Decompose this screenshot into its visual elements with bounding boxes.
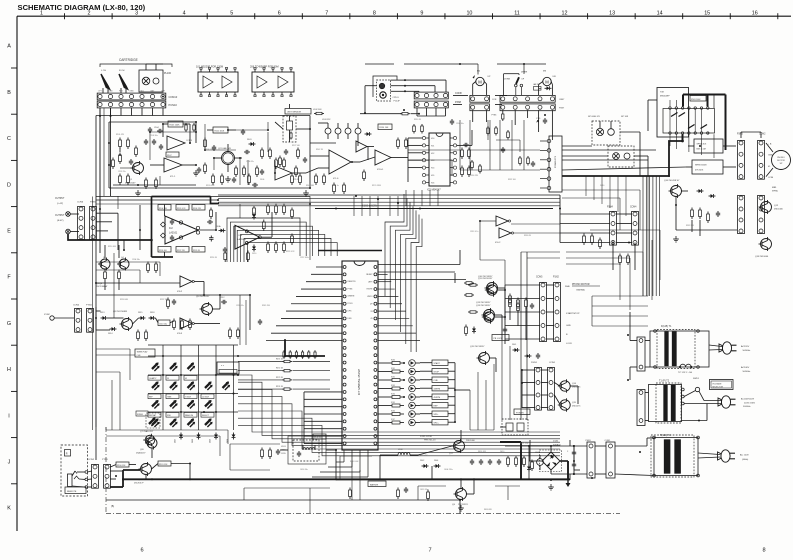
label PTN5 [492, 110, 505, 121]
svg-text:Q15 2SC1815Y: Q15 2SC1815Y [470, 346, 485, 348]
bus thick above CPU [318, 250, 382, 252]
transistor Q16 speed [664, 180, 688, 205]
svg-text:7 INCH: 7 INCH [185, 396, 192, 398]
power transformer T1 [650, 325, 709, 374]
svg-text:SIG: SIG [140, 91, 144, 93]
buffer IC8-2 [177, 276, 204, 293]
LED D114b [170, 418, 178, 427]
svg-text:C121 1u: C121 1u [332, 185, 339, 187]
svg-text:R440 5.6K: R440 5.6K [350, 461, 359, 463]
svg-text:SYNC: SYNC [44, 314, 50, 316]
svg-text:POWER: POWER [516, 412, 524, 414]
oscillator coil [297, 445, 315, 457]
resistor box C110 [158, 320, 170, 326]
svg-text:2SD1275: 2SD1275 [572, 406, 581, 408]
indicator box 7-seg [217, 362, 239, 374]
power transformer T3 [651, 434, 699, 477]
svg-text:33RPM: 33RPM [434, 389, 441, 391]
wire right mid horizontals [566, 252, 643, 310]
svg-text:DRIER: DRIER [521, 72, 528, 74]
diode D101 [247, 139, 256, 146]
svg-text:HD0: HD0 [431, 138, 434, 140]
LED D107 [188, 381, 196, 390]
connector P3N8 row2 [414, 101, 461, 108]
svg-text:1: 1 [40, 11, 43, 17]
diodes D104 D105 [252, 213, 256, 252]
connector CON1M [548, 362, 556, 410]
headphone jack [68, 471, 88, 489]
LED D111 [188, 400, 196, 409]
svg-text:G: G [7, 321, 11, 327]
transistor Q8 servo [113, 311, 133, 331]
switch SWD1 voltage select [684, 378, 704, 401]
svg-text:D118: D118 [150, 312, 154, 314]
LED D113b [152, 418, 160, 427]
svg-text:GM294A: GM294A [576, 289, 585, 292]
svg-text:R337 68K: R337 68K [686, 225, 695, 227]
svg-text:REPEAT: REPEAT [149, 414, 157, 417]
svg-text:R245 15K: R245 15K [262, 305, 271, 307]
bus nested staircase right [385, 194, 422, 352]
svg-text:C103 10u: C103 10u [150, 135, 158, 137]
svg-text:R139 1K: R139 1K [193, 250, 201, 252]
resistor boxes above IC2 [158, 205, 205, 211]
LED D112 [205, 400, 213, 409]
svg-text:220V/ /240V: 220V/ /240V [744, 402, 756, 404]
wires connector to motor [741, 132, 773, 177]
svg-text:CON6: CON6 [77, 202, 84, 204]
wires output to amp [96, 213, 124, 258]
diode D115 D118 [138, 312, 156, 320]
oscillator L101 dashed box [281, 440, 319, 461]
svg-text:HD4: HD4 [431, 168, 434, 170]
svg-text:RANDOM: RANDOM [185, 414, 193, 417]
svg-text:+ B: + B [768, 144, 772, 146]
switch name plates column [420, 360, 455, 425]
svg-text:Q16 2SC458 SY: Q16 2SC458 SY [664, 180, 680, 182]
diode D113 [100, 312, 108, 320]
svg-text:3: 3 [135, 11, 138, 17]
wire left long verticals [96, 108, 246, 427]
svg-text:C108 47u: C108 47u [246, 161, 254, 163]
connector CON2 [88, 459, 98, 488]
wires CPU right area [378, 250, 505, 372]
svg-text:STOP: STOP [434, 372, 440, 374]
svg-text:SP 103: SP 103 [621, 116, 629, 118]
inductor L102 label [313, 109, 324, 115]
misc diodes motor drive [691, 189, 721, 223]
svg-text:12 INCH: 12 INCH [202, 396, 210, 398]
LED matrix row wires [148, 345, 238, 412]
svg-text:CON8: CON8 [455, 92, 462, 95]
svg-text:45RPM: 45RPM [434, 397, 441, 399]
svg-text:50/60Hz: 50/60Hz [743, 350, 751, 352]
LED D110 [170, 400, 178, 409]
label BARKER [368, 481, 386, 487]
svg-text:UNIT SENSOR: UNIT SENSOR [287, 112, 302, 114]
buffer IC6-2 pair [495, 216, 514, 244]
svg-text:PC14F: PC14F [394, 101, 401, 103]
svg-text:R171 1K: R171 1K [276, 359, 284, 361]
capacitor texture preamp3 [129, 129, 298, 177]
svg-text:RND: RND [167, 415, 172, 417]
lamp block SP103 dashed [608, 146, 634, 167]
bus thick matrix feed [238, 340, 325, 356]
svg-text:Q18 2SD1046: Q18 2SD1046 [755, 256, 769, 258]
svg-text:R174 1K: R174 1K [276, 386, 284, 388]
svg-text:TIMES PLAY: TIMES PLAY [137, 351, 149, 354]
svg-text:T(120) T3: T(120) T3 [660, 434, 671, 437]
transistor Q14 2SD1275 [558, 379, 581, 392]
svg-text:REMOTE: REMOTE [348, 281, 357, 283]
transistor Q12 right [759, 200, 784, 214]
bus thick main ground [122, 478, 570, 480]
wires CPU right pin exits [378, 274, 420, 340]
svg-text:VOLTAGE: VOLTAGE [712, 382, 722, 385]
svg-text:Q8 2SC2308W: Q8 2SC2308W [113, 311, 127, 313]
svg-text:R186: R186 [391, 411, 395, 413]
diodes D121 D122 [465, 325, 508, 337]
wire below matrix horizontals [106, 427, 228, 456]
svg-text:IC6-2: IC6-2 [495, 242, 501, 244]
svg-text:50/60Hz: 50/60Hz [743, 406, 750, 408]
svg-text:MB1: MB1 [772, 187, 777, 189]
svg-text:SPEED: SPEED [137, 414, 144, 416]
svg-text:WHE: WHE [565, 286, 570, 288]
wire band rows D-E left [96, 196, 310, 260]
svg-text:PCN10: PCN10 [169, 103, 178, 107]
svg-text:SPD-: SPD- [434, 414, 439, 416]
svg-text:B3X 1.5M: B3X 1.5M [697, 149, 706, 151]
transistor Q15 2SD1275 [558, 398, 581, 411]
tiny value labels texture 4 [300, 443, 529, 511]
svg-text:47K B2X: 47K B2X [695, 170, 704, 172]
capacitor texture row C right [450, 119, 535, 167]
svg-text:L103 152: L103 152 [322, 119, 331, 121]
svg-text:D144: D144 [434, 460, 438, 462]
svg-text:2SD1406: 2SD1406 [774, 209, 784, 211]
svg-text:IC7 M58653-451SP: IC7 M58653-451SP [357, 369, 361, 395]
resistor pack SFRB [686, 160, 730, 174]
lamp block SP0004 dashed [592, 121, 620, 145]
svg-text:R142 1K: R142 1K [316, 149, 324, 151]
svg-text:P3N6: P3N6 [90, 202, 96, 204]
svg-text:SFRA 45X: SFRA 45X [697, 143, 707, 146]
connector CON7 row1 [500, 95, 565, 102]
svg-text:MS0049P: MS0049P [660, 95, 670, 97]
svg-text:T1 (P) T2: T1 (P) T2 [659, 380, 670, 383]
svg-text:8: 8 [373, 11, 376, 17]
wires motor power [522, 370, 578, 408]
svg-text:AC220V: AC220V [741, 345, 750, 348]
wire right mid texture [562, 190, 660, 300]
wire left inner vertical [92, 197, 94, 431]
tiny value labels texture 1 [116, 134, 382, 187]
capacitor C101 [144, 139, 156, 145]
label REMOTE [65, 487, 86, 494]
svg-text:R111 100K: R111 100K [215, 131, 225, 133]
svg-text:RESET: RESET [366, 274, 373, 276]
svg-text:33: 33 [167, 378, 169, 380]
svg-text:R119 2.2K: R119 2.2K [205, 149, 214, 151]
logic IC5 M54547 [422, 133, 456, 192]
wire phono feed verticals [521, 252, 560, 420]
resistors phono drive [468, 284, 534, 313]
svg-text:R322 100: R322 100 [508, 179, 516, 181]
svg-text:R422 1.5K: R422 1.5K [520, 443, 529, 445]
connector CON8 row1 [414, 92, 462, 99]
junction dots preamp [108, 123, 269, 159]
resistor R191 box [152, 461, 191, 469]
resistors near Q10 [464, 282, 519, 309]
capacitor bank power [470, 459, 501, 465]
unit sensor label [285, 109, 311, 115]
diode D147 [521, 445, 531, 479]
LED D101 [152, 362, 160, 371]
svg-text:Q9 2SC1815Y: Q9 2SC1815Y [196, 296, 210, 298]
svg-text:R222 4.7K: R222 4.7K [286, 251, 295, 253]
svg-text:C6N7: C6N7 [559, 99, 565, 101]
op-amp IC10-2 small [356, 141, 374, 152]
svg-text:2SA1015Y: 2SA1015Y [136, 451, 146, 454]
svg-text:R216 1K: R216 1K [210, 257, 218, 259]
wire switch matrix bus thick [681, 95, 725, 151]
svg-text:BARKER: BARKER [370, 483, 379, 486]
input SYNC [44, 314, 74, 320]
svg-text:U/D: U/D [553, 76, 557, 78]
svg-text:POS1: POS1 [348, 303, 353, 305]
svg-text:HD3: HD3 [431, 160, 434, 162]
svg-text:R127 560: R127 560 [292, 145, 300, 147]
svg-text:IC8-2: IC8-2 [177, 291, 183, 293]
wire preamp internal rails [109, 122, 310, 188]
svg-text:D210: D210 [252, 253, 256, 255]
svg-text:C412 47u: C412 47u [420, 489, 428, 491]
switch matrix contacts row2 [669, 132, 709, 134]
diode D147 group [512, 344, 540, 359]
switch unit T08 MS0049P outer box [648, 88, 689, 138]
transistor Q11 [478, 278, 497, 297]
svg-text:H: H [7, 367, 11, 373]
LED D106 [170, 381, 178, 390]
svg-text:M: M [545, 80, 549, 85]
wires CPU left lower [304, 392, 342, 443]
connector CON4L [73, 305, 81, 333]
unit sensor dashed block [283, 116, 296, 142]
svg-text:D101: D101 [247, 139, 252, 141]
motor M2 up-down [473, 71, 492, 96]
label D131-D138 PRXT01-20 [420, 436, 436, 442]
stylus coil L-CH [101, 70, 110, 93]
svg-text:2SD1275: 2SD1275 [572, 387, 581, 389]
svg-text:GND: GND [108, 91, 113, 93]
svg-text:(B): (B) [111, 505, 114, 508]
power cord and plug T3 [698, 450, 735, 462]
dual transistor Q2 [214, 144, 242, 172]
svg-text:C312 4.7u: C312 4.7u [470, 231, 478, 233]
connector PTN3 [102, 459, 110, 488]
svg-text:R136 100: R136 100 [159, 250, 167, 252]
LED D105 [152, 381, 160, 390]
wire right area horizontals [592, 176, 648, 326]
column diodes D117-D120 [175, 433, 236, 444]
svg-text:AC110V/120V/: AC110V/120V/ [741, 398, 755, 401]
svg-text:R: R [66, 452, 68, 455]
svg-text:IC1-3: IC1-3 [187, 140, 193, 142]
svg-text:2SC945 P: 2SC945 P [134, 483, 144, 485]
bus right vertical bundle [613, 176, 660, 296]
resistor R111 box [207, 127, 236, 133]
svg-text:P0N1: P0N1 [586, 440, 592, 442]
wires CP101 to CON8 [391, 79, 447, 92]
capacitor texture preamp2 [148, 123, 216, 151]
svg-text:D114: D114 [108, 333, 112, 335]
wires motor drive [562, 146, 737, 236]
label AC220V ratings [741, 345, 750, 373]
svg-text:GND: GND [129, 91, 134, 93]
transistor Q3 [96, 258, 110, 286]
junction dots extra [115, 63, 630, 480]
svg-text:7: 7 [325, 11, 328, 17]
svg-text:D410: D410 [500, 451, 504, 453]
op-amp IC10-1 [375, 150, 400, 171]
svg-text:9: 9 [420, 11, 423, 17]
svg-text:CON1: CON1 [605, 440, 612, 442]
op-amp IC1-6 [318, 150, 360, 180]
svg-text:SP 0004 X3: SP 0004 X3 [588, 116, 600, 118]
power PCB strip [540, 136, 562, 192]
svg-text:5: 5 [230, 11, 233, 17]
LED D104 speed [223, 381, 231, 390]
svg-text:SPD+: SPD+ [434, 423, 440, 425]
svg-text:R105 100K: R105 100K [170, 125, 181, 127]
resistor cluster right of IC3 [267, 204, 294, 254]
svg-text:OUTPUT: OUTPUT [55, 215, 65, 217]
svg-text:L102 103: L102 103 [313, 109, 322, 111]
svg-text:D141: D141 [512, 344, 516, 346]
connector CON9 row2 [470, 104, 490, 111]
svg-text:C141: C141 [535, 452, 539, 454]
svg-text:PTN3: PTN3 [102, 459, 108, 461]
svg-text:R183: R183 [391, 385, 395, 387]
capacitor C104 [154, 127, 163, 133]
name plates row4 [148, 413, 214, 418]
connector CON9 row1 [470, 95, 497, 102]
svg-text:B: B [7, 90, 11, 96]
svg-text:PHONO: PHONO [777, 157, 785, 159]
transistor Q7 [140, 430, 157, 450]
switch levers [671, 113, 707, 129]
connector P3N5 [737, 134, 744, 180]
resistors right of IC2 [210, 206, 266, 263]
top ruler numbers 1-16 with tick marks [40, 11, 778, 20]
wire preamp feedback loops [120, 122, 268, 185]
resistor cluster mid preamp [204, 138, 259, 186]
svg-text:LA3161: LA3161 [169, 232, 178, 235]
svg-text:D142: D142 [420, 460, 424, 462]
diode resistor across M3 [533, 83, 552, 90]
svg-text:Q3: Q3 [103, 257, 106, 259]
pin labels for CON10 [98, 91, 166, 93]
svg-text:PHONO MOTOR: PHONO MOTOR [572, 284, 590, 286]
resistor R158 R159 beside IC5 [461, 148, 471, 178]
svg-text:D113: D113 [100, 312, 104, 314]
wires headphone row [106, 448, 240, 500]
svg-text:R181: R181 [391, 368, 395, 370]
transistor Q18 right [755, 237, 772, 258]
switch matrix inner frame [663, 109, 715, 134]
wire texture between IC6 and CON5 [480, 221, 560, 285]
connector CON2R [758, 134, 767, 180]
svg-text:T.P 125°C - 2A: T.P 125°C - 2A [678, 371, 692, 374]
svg-text:R132 4.7K: R132 4.7K [177, 208, 186, 210]
resistor texture row F [147, 262, 263, 340]
resistor R190 box [110, 462, 136, 467]
wires to P3N4 CON4 [560, 195, 632, 243]
connector CON6 [77, 202, 84, 240]
svg-text:PGN1: PGN1 [531, 362, 538, 364]
resistor pack SFRA [688, 139, 730, 153]
svg-text:IC1-6: IC1-6 [333, 178, 339, 180]
wires IC5 fanout [408, 130, 472, 182]
cartridge label and bracket [100, 58, 172, 67]
label SP 0004 X3 [588, 116, 629, 118]
op-amp IC1-2 [167, 136, 193, 150]
resistor R503 box [690, 96, 706, 102]
svg-text:R154 10K: R154 10K [380, 127, 390, 129]
svg-text:Q4: Q4 [121, 257, 124, 259]
svg-text:* *: * * [221, 364, 224, 368]
tiny value labels texture 2 [108, 246, 309, 307]
svg-text:R187: R187 [391, 419, 395, 421]
svg-text:R191 15K: R191 15K [159, 464, 168, 466]
svg-text:(60Hz): (60Hz) [742, 459, 749, 461]
diodes D142-D145 [420, 460, 441, 468]
svg-text:HD6: HD6 [431, 182, 434, 184]
svg-text:COM: COM [768, 177, 773, 179]
svg-text:33: 33 [370, 311, 372, 313]
svg-text:R316 22K: R316 22K [470, 175, 479, 177]
svg-text:F(125) T1: F(125) T1 [661, 325, 672, 328]
capacitor texture preamp [232, 149, 307, 187]
svg-text:DOWN: DOWN [504, 79, 511, 81]
svg-text:C220 47u: C220 47u [236, 305, 244, 307]
svg-text:GND: GND [566, 325, 571, 327]
svg-text:Q11 2SC1815Y: Q11 2SC1815Y [478, 278, 493, 280]
connector P1N2 phono [553, 277, 560, 342]
wire texture row C [306, 123, 408, 173]
svg-text:C104: C104 [154, 127, 159, 129]
svg-text:AC 120V: AC 120V [740, 454, 749, 457]
capacitor C112 [220, 297, 227, 304]
motor M3 up-down [539, 71, 557, 96]
capacitor C106 C108 [197, 150, 264, 175]
power cord and plug T2 [682, 396, 736, 422]
svg-text:A: A [7, 44, 11, 50]
svg-text:CON1: CON1 [549, 362, 556, 364]
wires power section [240, 430, 574, 514]
wire CPU bottom exits [312, 450, 368, 477]
diode D102 [365, 132, 372, 136]
diode array D131-D138 [409, 360, 420, 426]
svg-text:RIGHT: RIGHT [367, 289, 374, 291]
svg-text:D146: D146 [553, 441, 559, 443]
phono motor MB1 [772, 151, 791, 193]
op-amp IC1-1 [150, 158, 196, 178]
wires bridge to power connector [574, 461, 580, 470]
svg-text:R330 2K: R330 2K [524, 235, 532, 237]
wires CPU left fan [266, 267, 342, 341]
